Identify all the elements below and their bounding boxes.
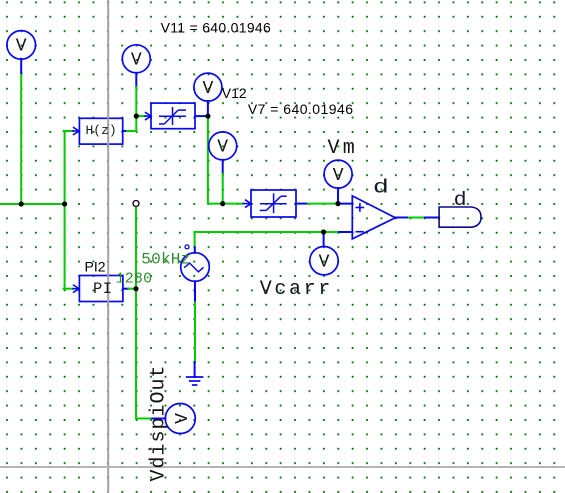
svg-text:Vm: Vm (328, 137, 358, 160)
open node marker (133, 201, 139, 207)
junction node H (136,288.7) (133, 286, 138, 291)
svg-text:V: V (16, 37, 27, 57)
junction node C (136.3,116.1) (134, 114, 139, 119)
probe V2 (122, 45, 150, 73)
probe Vcarr (310, 247, 338, 275)
junction node D (207.9,116.1) (205, 114, 210, 119)
wire main bus y=204 (0, 203, 66, 205)
svg-text:V: V (131, 51, 142, 71)
svg-text:d: d (373, 177, 389, 199)
junction node F (338,203.6) (335, 201, 340, 206)
block PI1 (79, 276, 123, 302)
svg-text:V: V (173, 413, 193, 424)
source VT1 triangle carrier (181, 253, 210, 282)
limiter U2 (151, 103, 195, 129)
wire V12 node down and right (208, 116, 223, 204)
svg-text:1280: 1280 (116, 270, 153, 287)
svg-text:Vcarr: Vcarr (260, 278, 333, 301)
wire probe Vcarr stub (323, 232, 325, 247)
wire comparator output to tag (395, 217, 409, 219)
svg-text:V: V (202, 79, 213, 99)
wire limiter U2 output (195, 115, 208, 117)
svg-text:VdispiOut: VdispiOut (148, 364, 171, 481)
wire to limiter U3 input (223, 203, 243, 205)
wire source VT1 bottom to ground (194, 281, 196, 302)
svg-text:PI: PI (93, 280, 113, 298)
junction node B (64.6,204) (62, 201, 67, 206)
ground G1 (186, 376, 204, 378)
probe VdispiOut (165, 404, 195, 434)
svg-text:V: V (217, 138, 228, 158)
wire carrier bus y=232 (195, 231, 339, 233)
probe V12 (194, 73, 222, 101)
probe Vm (324, 160, 352, 188)
wire probe V2 drop (135, 73, 137, 87)
wire probe Vm drop (337, 188, 339, 204)
svg-text:V11 = 640.01946: V11 = 640.01946 (161, 20, 272, 36)
svg-text:V: V (319, 252, 330, 272)
svg-text:V: V (333, 166, 344, 186)
wire PI input (64, 288, 73, 290)
wire to probe VdispiOut (136, 418, 152, 420)
wire H(z) output to node (123, 130, 128, 132)
svg-text:H(z): H(z) (86, 123, 117, 138)
wire vertical feeder x=64.6 (64, 131, 66, 289)
block H1 H(z) (79, 118, 122, 144)
wire probe V4 drop (222, 160, 224, 174)
svg-text:d: d (454, 189, 467, 211)
wire node column x=136 (135, 207, 137, 419)
wire PI output (123, 288, 129, 290)
ruler line horizontal (0, 466, 565, 468)
wire probe V12 drop (207, 101, 209, 116)
wire source VT1 top (194, 232, 196, 247)
junction node A (21.2,204) (19, 201, 24, 206)
wire H(z) input (64, 130, 73, 132)
limiter U3 (251, 190, 296, 217)
source VT1 polarity marker (185, 245, 189, 249)
svg-text:V7 = 640.01946: V7 = 640.01946 (248, 101, 354, 117)
svg-text:PI2: PI2 (85, 258, 106, 274)
probe V4 (209, 132, 237, 160)
junction node E (222.7,203.6) (220, 201, 225, 206)
svg-text:50kHz: 50kHz (141, 250, 190, 268)
wire probe V1 drop (20, 73, 22, 204)
wire comparator plus input stub (338, 203, 352, 205)
junction node G (323.6,232) (321, 229, 326, 234)
comparator U4 (352, 196, 395, 239)
wire limiter U3 output (296, 203, 308, 205)
ruler line vertical (107, 0, 109, 493)
probe V1 (7, 31, 36, 60)
label tag d (439, 207, 481, 227)
svg-text:V12: V12 (222, 85, 247, 101)
wire node to limiter U2 input (136, 115, 145, 117)
